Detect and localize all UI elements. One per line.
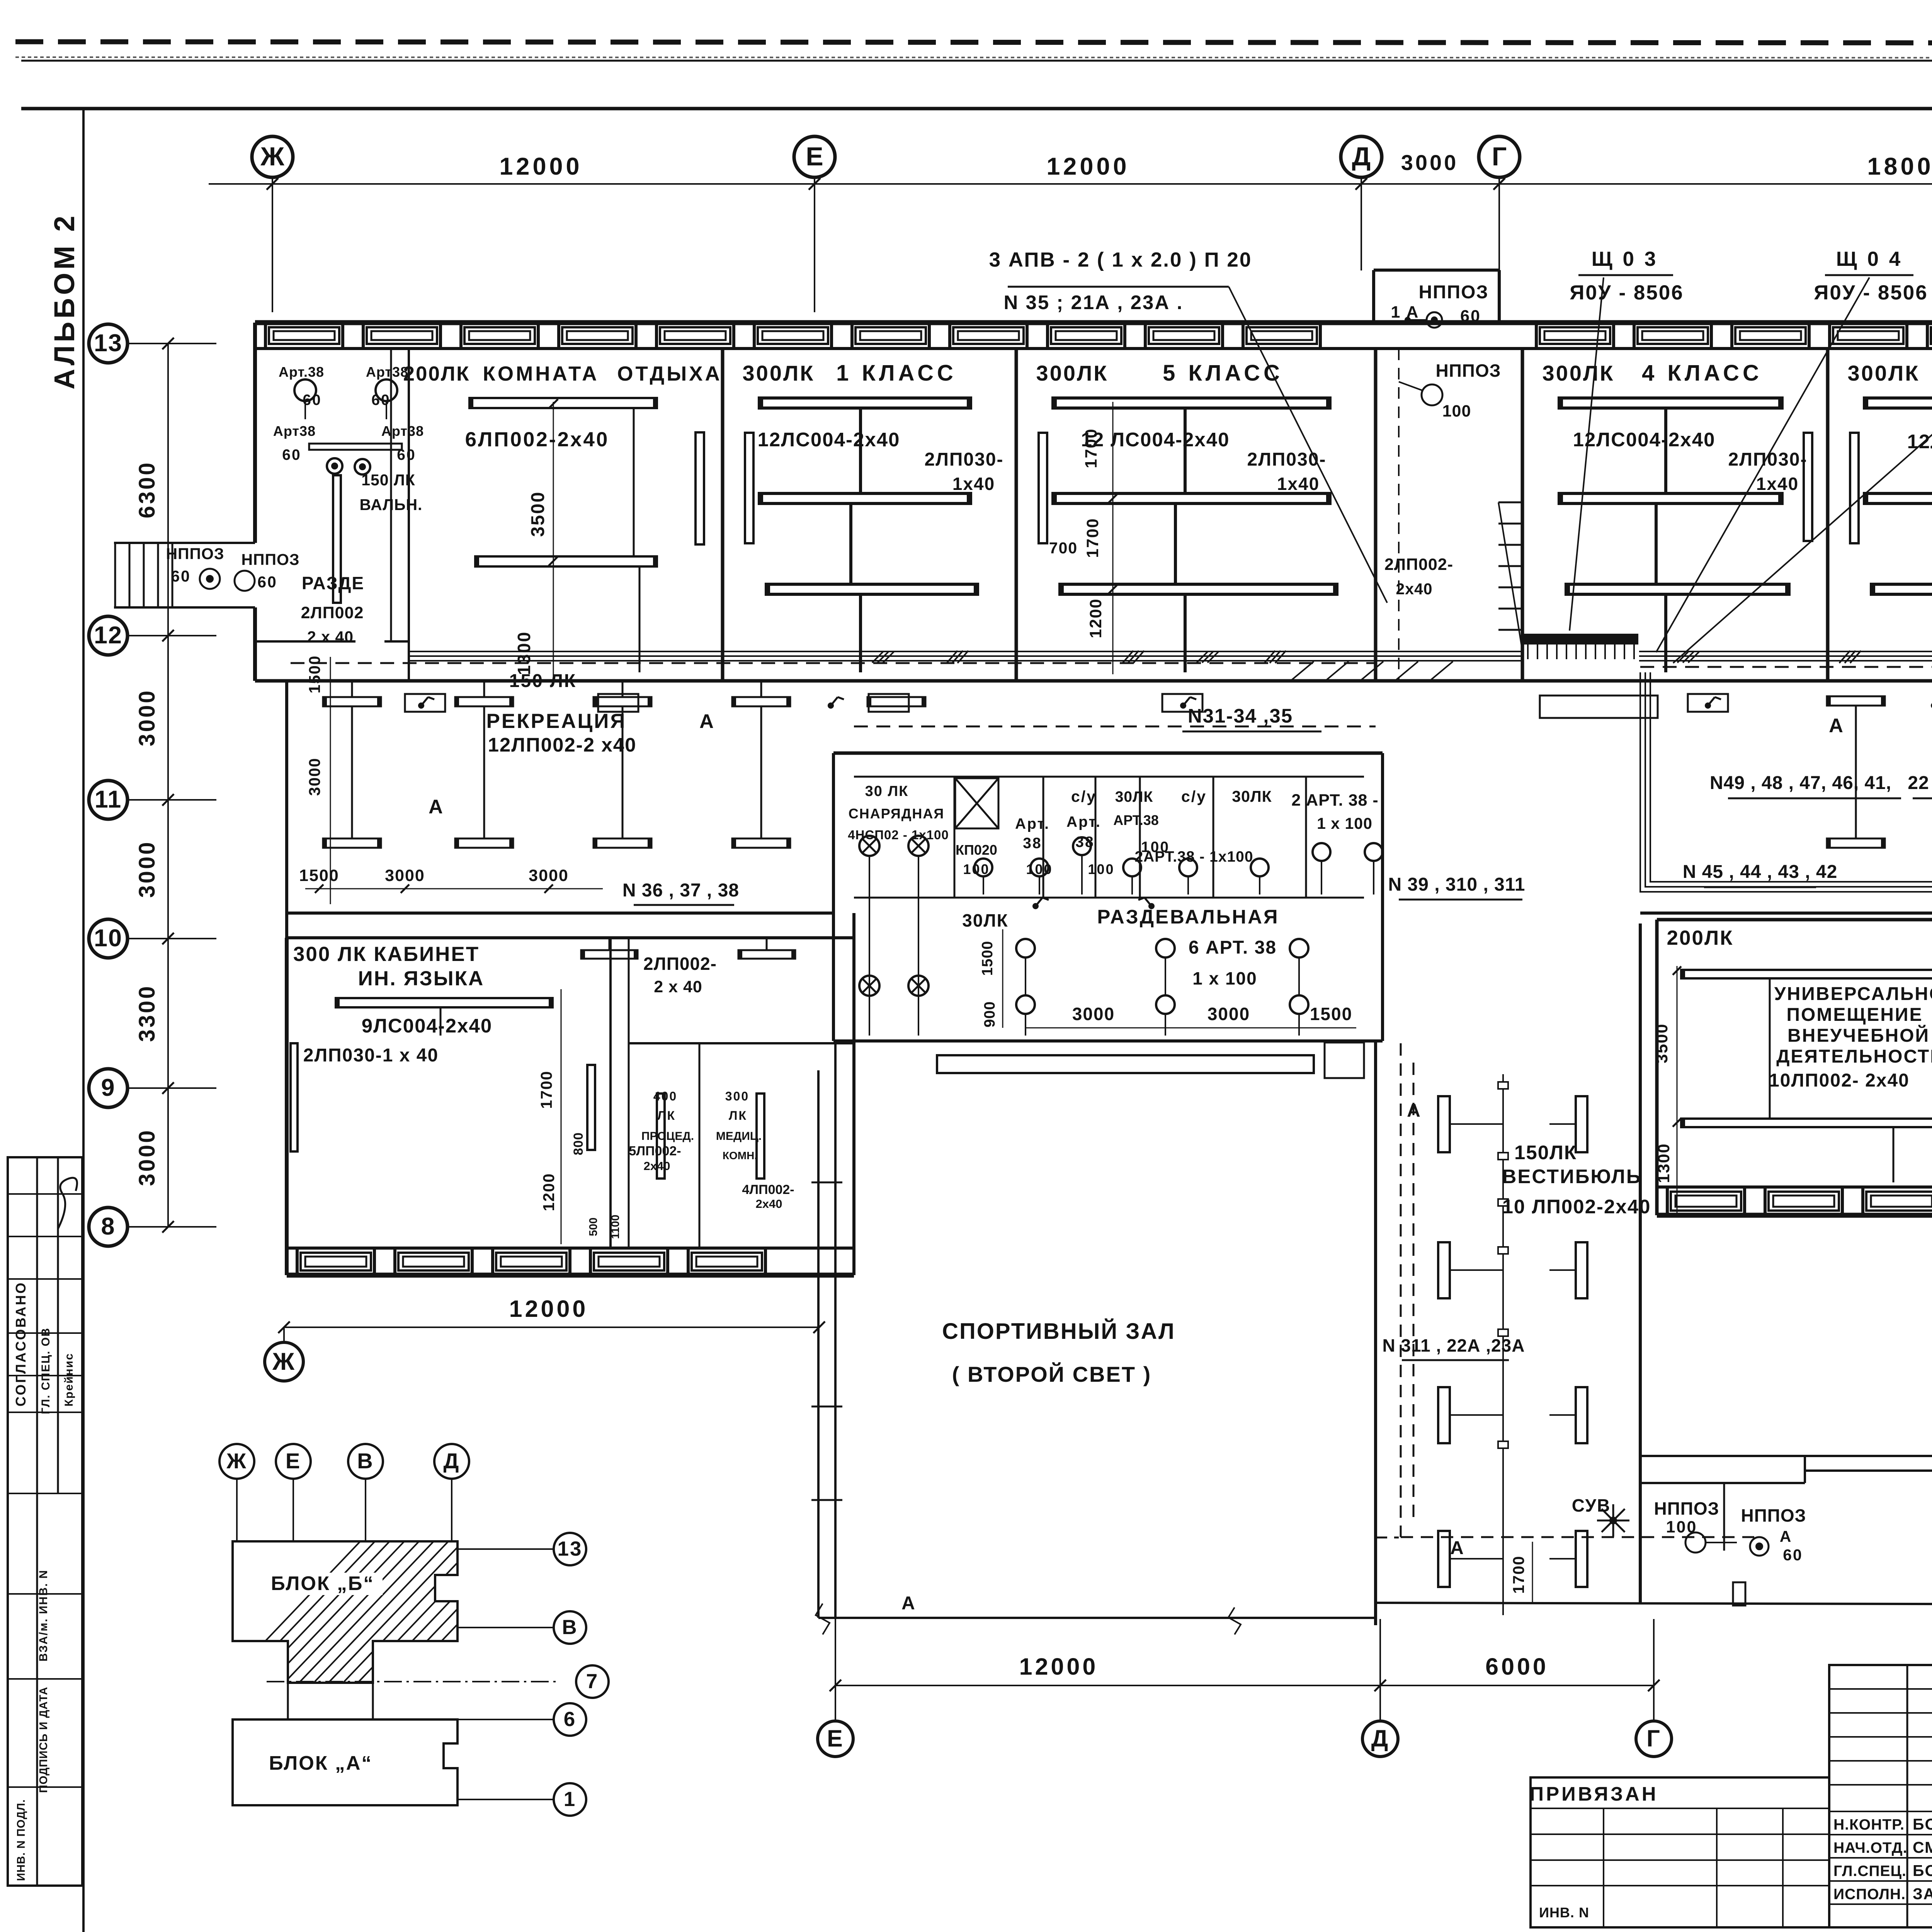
svg-text:В: В <box>562 1616 578 1639</box>
svg-text:А: А <box>1780 1527 1793 1545</box>
svg-text:КОМНАТА: КОМНАТА <box>483 362 599 385</box>
svg-text:12000: 12000 <box>509 1296 588 1322</box>
cabinet blackboard bar <box>291 1043 298 1151</box>
lower-left south wall with windows <box>287 1273 854 1278</box>
svg-text:10ЛП002- 2х40: 10ЛП002- 2х40 <box>1769 1070 1910 1091</box>
key plan leaders <box>457 1548 554 1550</box>
svg-text:2 х 40: 2 х 40 <box>307 628 354 646</box>
title block: signature table <box>1829 1665 1932 1927</box>
sports hall west wall window ticks <box>811 1182 842 1184</box>
svg-text:1300: 1300 <box>1655 1143 1673 1183</box>
svg-text:РАЗДЕВАЛЬНАЯ: РАЗДЕВАЛЬНАЯ <box>1097 906 1279 928</box>
switch symbols at classroom doors <box>418 702 424 709</box>
svg-text:Н.КОНТР.: Н.КОНТР. <box>1833 1816 1905 1833</box>
svg-text:1х40: 1х40 <box>952 474 995 494</box>
svg-text:300 ЛК КАБИНЕТ: 300 ЛК КАБИНЕТ <box>293 943 480 966</box>
svg-text:Арт.: Арт. <box>1066 814 1101 830</box>
top column grid dimension line <box>209 183 1932 185</box>
svg-text:1х40: 1х40 <box>1277 474 1320 494</box>
svg-text:700: 700 <box>1049 539 1078 557</box>
changing block partition (upper strip) <box>854 897 1364 899</box>
room 5 КЛАСС: luminaire bars <box>1053 398 1330 408</box>
sports hall west wall (double) <box>817 1070 820 1618</box>
room СНАРЯДНАЯ lamps <box>859 836 879 856</box>
closet with cross (changing strip) <box>955 778 998 828</box>
svg-text:10 ЛП002-2х40: 10 ЛП002-2х40 <box>1502 1196 1651 1218</box>
svg-text:400: 400 <box>653 1089 677 1103</box>
partition РАЗДЕ/ВАЛЬН <box>390 349 392 641</box>
svg-text:300ЛК: 300ЛК <box>1036 361 1109 385</box>
torn top edge of scanned sheet <box>15 42 1932 43</box>
svg-text:1700: 1700 <box>1083 518 1102 558</box>
recreation (right) T-luminaires row 1 <box>1827 696 1885 706</box>
changing room dim chain <box>1002 929 1003 1028</box>
bench below changing block <box>937 1055 1314 1073</box>
svg-text:30ЛК: 30ЛК <box>962 910 1009 930</box>
svg-text:12000: 12000 <box>499 153 582 180</box>
stairwell between 5 КЛАСС and 4 КЛАСС <box>1398 349 1400 681</box>
corridor south wall (right part) <box>1640 912 1932 915</box>
svg-text:1500: 1500 <box>979 941 996 976</box>
svg-text:ИНВ. N ПОДЛ.: ИНВ. N ПОДЛ. <box>15 1799 27 1881</box>
svg-text:200ЛК: 200ЛК <box>403 362 470 385</box>
grid bubble Ж (bottom of hall) <box>265 1342 303 1381</box>
svg-text:3000: 3000 <box>385 866 425 885</box>
vestibule luminaires (vertical bars) <box>1438 1096 1450 1152</box>
svg-text:3000: 3000 <box>529 866 569 885</box>
svg-text:8: 8 <box>101 1213 115 1240</box>
svg-text:2 АРТ. 38 -: 2 АРТ. 38 - <box>1291 791 1378 810</box>
svg-text:6 АРТ. 38: 6 АРТ. 38 <box>1189 937 1277 958</box>
grid bubble 11 (left) <box>89 781 128 819</box>
grid bubble 12 (left) <box>89 616 128 655</box>
grid bubble Е (top) <box>794 136 835 177</box>
grid bubble Е (bottom) <box>818 1721 853 1757</box>
svg-text:3000: 3000 <box>134 1128 160 1186</box>
svg-text:1500: 1500 <box>299 866 339 885</box>
svg-text:УНИВЕРСАЛЬНОЕ: УНИВЕРСАЛЬНОЕ <box>1774 984 1932 1004</box>
svg-text:100: 100 <box>1442 402 1471 420</box>
svg-text:с/у: с/у <box>1181 787 1207 805</box>
grid bubble Д (bottom) <box>1362 1721 1398 1757</box>
svg-text:1200: 1200 <box>1087 598 1105 638</box>
svg-text:150 ЛК: 150 ЛК <box>509 671 577 691</box>
svg-text:Ж: Ж <box>260 142 284 171</box>
svg-text:Д: Д <box>1352 142 1371 171</box>
room 1 КЛАСС: luminaire bars <box>759 398 971 408</box>
svg-text:ВЕСТИБЮЛЬ: ВЕСТИБЮЛЬ <box>1502 1165 1642 1187</box>
title block: ПРИВЯЗАН table <box>1531 1777 1829 1927</box>
panel drop wires <box>1527 645 1529 659</box>
classroom band south corridor wall <box>255 679 1932 683</box>
svg-text:1 х 100: 1 х 100 <box>1317 815 1372 832</box>
sports hall south wall break marks <box>816 1604 830 1634</box>
svg-text:3000: 3000 <box>1207 1004 1250 1024</box>
svg-text:4НСП02 - 1х100: 4НСП02 - 1х100 <box>848 828 949 842</box>
svg-text:1 х 100: 1 х 100 <box>1192 968 1257 988</box>
svg-text:НППОЗ: НППОЗ <box>1436 361 1501 381</box>
svg-text:КОМН.: КОМН. <box>723 1150 757 1162</box>
grid bubble 9 (left) <box>89 1069 128 1107</box>
svg-text:12ЛС004-2х40: 12ЛС004-2х40 <box>1573 429 1716 451</box>
svg-text:5ЛП002-: 5ЛП002- <box>629 1144 681 1158</box>
svg-text:1200: 1200 <box>540 1173 558 1211</box>
svg-text:1х40: 1х40 <box>1756 474 1799 494</box>
svg-text:2х40: 2х40 <box>644 1159 670 1173</box>
svg-text:12ЛП002-2 х40: 12ЛП002-2 х40 <box>488 734 637 756</box>
corridor door jambs <box>405 694 445 712</box>
svg-text:ЗАЙЦЕВА: ЗАЙЦЕВА <box>1913 1885 1932 1903</box>
svg-text:Ж: Ж <box>226 1449 247 1473</box>
svg-text:1700: 1700 <box>1082 428 1100 468</box>
svg-text:12ЛС004-2х40: 12ЛС004-2х40 <box>1907 430 1932 452</box>
svg-text:3500: 3500 <box>1653 1023 1671 1063</box>
classroom interior dims 1700/1700/1200/700 <box>1112 402 1114 674</box>
svg-text:ПОДПИСЬ И ДАТА: ПОДПИСЬ И ДАТА <box>37 1687 50 1793</box>
svg-text:НППОЗ: НППОЗ <box>1654 1498 1719 1519</box>
grid bubble Ж (top) <box>252 136 293 177</box>
svg-text:200ЛК: 200ЛК <box>1667 927 1734 949</box>
svg-text:ИСПОЛН.: ИСПОЛН. <box>1833 1886 1906 1903</box>
grid bubble 13 (left) <box>89 324 128 363</box>
svg-text:БЛОК „А“: БЛОК „А“ <box>269 1752 372 1774</box>
svg-text:ВЗА/м. ИНВ. N: ВЗА/м. ИНВ. N <box>37 1570 50 1662</box>
svg-text:БЛОК „Б“: БЛОК „Б“ <box>271 1572 374 1594</box>
ПРОЦЕД / МЕДИЦ rooms <box>587 1065 595 1150</box>
svg-text:N31-34 ,35: N31-34 ,35 <box>1188 705 1293 727</box>
svg-text:А: А <box>901 1593 916 1614</box>
svg-text:А: А <box>429 796 444 818</box>
recreation (right) T-luminaires row 2 <box>1827 838 1885 848</box>
cabinet luminaire bar <box>336 998 553 1007</box>
2ЛП002 T-luminaires in small rooms <box>581 950 638 959</box>
svg-text:150 ЛК: 150 ЛК <box>361 471 415 489</box>
corridor feeder bundle (3 wires) <box>410 651 1522 652</box>
lower-left block walls <box>287 936 854 939</box>
west entrance porch walls <box>114 542 255 544</box>
svg-text:2АРТ.38 - 1х100: 2АРТ.38 - 1х100 <box>1134 849 1253 865</box>
vestibule east wall <box>1639 923 1642 1603</box>
svg-text:2х40: 2х40 <box>756 1197 782 1211</box>
svg-text:Д: Д <box>1371 1725 1389 1752</box>
svg-text:150ЛК: 150ЛК <box>1514 1141 1577 1163</box>
svg-text:60: 60 <box>303 392 321 408</box>
svg-text:2ЛП030-: 2ЛП030- <box>1728 449 1808 470</box>
svg-text:Арт38: Арт38 <box>381 423 424 439</box>
svg-text:60: 60 <box>1460 307 1481 325</box>
svg-text:СМИРНОВ: СМИРНОВ <box>1913 1838 1932 1856</box>
svg-text:( ВТОРОЙ СВЕТ ): ( ВТОРОЙ СВЕТ ) <box>952 1362 1152 1386</box>
svg-text:300: 300 <box>725 1089 749 1103</box>
svg-text:СНАРЯДНАЯ: СНАРЯДНАЯ <box>849 806 945 821</box>
svg-text:ЛК: ЛК <box>657 1109 676 1122</box>
svg-text:1: 1 <box>564 1788 576 1811</box>
grid bubble Г (bottom) <box>1636 1721 1672 1757</box>
svg-text:А: А <box>1829 714 1844 736</box>
bottom grid dimension line <box>835 1685 1654 1686</box>
svg-text:2ЛП030-: 2ЛП030- <box>1247 449 1327 470</box>
svg-text:5 КЛАСС: 5 КЛАСС <box>1163 361 1283 386</box>
svg-text:НАЧ.ОТД.: НАЧ.ОТД. <box>1833 1840 1907 1856</box>
svg-text:Е: Е <box>806 142 823 171</box>
svg-text:500: 500 <box>587 1218 600 1236</box>
svg-text:НППОЗ: НППОЗ <box>1418 282 1488 303</box>
svg-text:3000: 3000 <box>1072 1004 1115 1024</box>
building west outer wall <box>253 323 257 543</box>
svg-text:ВНЕУЧЕБНОЙ: ВНЕУЧЕБНОЙ <box>1787 1025 1930 1046</box>
feeder bundle to south-east block <box>1640 672 1932 920</box>
svg-text:22 А: 22 А <box>1908 773 1932 793</box>
svg-text:N 45 , 44 , 43 , 42: N 45 , 44 , 43 , 42 <box>1683 862 1838 882</box>
svg-text:60: 60 <box>282 447 301 463</box>
svg-text:12000: 12000 <box>1019 1653 1099 1680</box>
svg-text:Крейнис: Крейнис <box>63 1353 75 1406</box>
bottom grid dimension line (sports hall 12000) <box>284 1327 819 1328</box>
svg-text:Ж: Ж <box>272 1348 296 1375</box>
svg-text:60: 60 <box>1783 1546 1803 1564</box>
svg-text:12ЛС004-2х40: 12ЛС004-2х40 <box>758 429 900 451</box>
svg-text:СПОРТИВНЫЙ ЗАЛ: СПОРТИВНЫЙ ЗАЛ <box>942 1319 1175 1344</box>
svg-text:N49 , 48 , 47, 46, 41,: N49 , 48 , 47, 46, 41, <box>1710 773 1891 793</box>
top margin band line <box>21 60 1932 62</box>
key plan grid bubbles Ж Е В Д <box>219 1444 254 1479</box>
recreation (left) T-luminaires row 2 <box>323 838 381 848</box>
svg-text:38: 38 <box>1023 835 1042 852</box>
svg-text:60: 60 <box>171 567 191 585</box>
svg-text:1700: 1700 <box>537 1070 555 1109</box>
svg-text:БОРОДКИН: БОРОДКИН <box>1913 1815 1932 1833</box>
svg-text:6ЛП002-2х40: 6ЛП002-2х40 <box>465 428 609 451</box>
svg-text:4 КЛАСС: 4 КЛАСС <box>1642 361 1762 386</box>
svg-text:А: А <box>1407 1100 1422 1121</box>
key plan axis 7 dash-dot line <box>267 1681 560 1682</box>
РАЗДЕ room south wall <box>255 640 355 643</box>
svg-text:N 35 ; 21А , 23А .: N 35 ; 21А , 23А . <box>1003 291 1183 313</box>
svg-text:300ЛК: 300ЛК <box>743 361 815 385</box>
svg-text:11: 11 <box>95 786 122 813</box>
vestibule south ground line <box>1376 1603 1932 1604</box>
svg-text:10: 10 <box>94 925 122 952</box>
svg-text:НППОЗ: НППОЗ <box>1741 1505 1806 1526</box>
svg-text:ВАЛЬН.: ВАЛЬН. <box>360 496 423 514</box>
svg-text:1100: 1100 <box>609 1215 622 1239</box>
stair treads <box>1498 502 1522 503</box>
svg-text:13: 13 <box>94 330 122 357</box>
hatch slashes on corridor bundle <box>947 651 957 663</box>
corridor dashed wiring line <box>291 662 1376 664</box>
svg-text:60: 60 <box>257 573 277 591</box>
grid bubble Г (top) <box>1479 136 1520 177</box>
svg-text:ПРИВЯЗАН: ПРИВЯЗАН <box>1529 1783 1658 1805</box>
svg-text:ИН. ЯЗЫКА: ИН. ЯЗЫКА <box>358 967 485 990</box>
top band lower rule <box>21 107 1932 111</box>
vestibule door opening <box>1540 696 1658 718</box>
svg-text:60: 60 <box>371 392 390 408</box>
svg-text:Арт38: Арт38 <box>366 364 408 380</box>
svg-text:12000: 12000 <box>1046 153 1129 180</box>
svg-text:Я0У - 8506: Я0У - 8506 <box>1814 281 1928 304</box>
svg-text:100: 100 <box>1026 861 1053 877</box>
dims 3500/1300 (universal room) <box>1677 966 1678 1213</box>
svg-text:РЕКРЕАЦИЯ: РЕКРЕАЦИЯ <box>486 710 627 733</box>
left frame border <box>82 109 85 1932</box>
vestibule dashed feeder loop <box>1400 1043 1402 1537</box>
upper strip lamps <box>975 859 992 876</box>
dim 1700 (vestibule exit) <box>1532 1542 1533 1604</box>
svg-text:ПОМЕЩЕНИЕ: ПОМЕЩЕНИЕ <box>1787 1005 1923 1025</box>
svg-text:12: 12 <box>94 622 122 649</box>
svg-text:38: 38 <box>1075 834 1094 850</box>
svg-text:Г: Г <box>1492 142 1507 171</box>
svg-text:2ЛП002: 2ЛП002 <box>301 604 364 622</box>
svg-text:АЛЬБОМ 2: АЛЬБОМ 2 <box>48 213 80 389</box>
svg-text:Я0У - 8506: Я0У - 8506 <box>1570 281 1684 304</box>
svg-text:60: 60 <box>397 447 416 463</box>
svg-text:ИНВ. N: ИНВ. N <box>1539 1905 1589 1920</box>
classroom partition walls <box>721 349 724 681</box>
svg-text:2 х 40: 2 х 40 <box>654 978 702 996</box>
svg-text:300ЛК: 300ЛК <box>1848 361 1920 385</box>
room 3 КЛАСС: luminaire bars <box>1864 398 1932 408</box>
svg-text:АРТ.38: АРТ.38 <box>1113 812 1159 828</box>
svg-text:ОТДЫХА: ОТДЫХА <box>617 362 722 385</box>
svg-text:А: А <box>1450 1538 1465 1558</box>
svg-text:900: 900 <box>981 1001 998 1027</box>
svg-text:Арт38: Арт38 <box>273 423 316 439</box>
svg-text:Е: Е <box>286 1449 301 1473</box>
south-east canopy slab <box>1640 1455 1932 1457</box>
svg-text:6000: 6000 <box>1485 1653 1549 1680</box>
vestibule south dashed line <box>1376 1537 1399 1539</box>
svg-text:30ЛК: 30ЛК <box>1115 789 1153 805</box>
svg-text:Г: Г <box>1646 1725 1661 1752</box>
svg-text:N 39 , 310 , 311: N 39 , 310 , 311 <box>1388 874 1526 895</box>
svg-text:100: 100 <box>1088 861 1114 877</box>
main panel ЩО3 (black bar) <box>1522 634 1638 645</box>
lower-right south wall with windows <box>1657 1213 1932 1218</box>
svg-text:30 ЛК: 30 ЛК <box>865 783 909 799</box>
svg-text:6: 6 <box>564 1708 576 1731</box>
svg-text:2х40: 2х40 <box>1396 580 1432 598</box>
svg-text:N 311 , 22А ,23А: N 311 , 22А ,23А <box>1383 1335 1525 1355</box>
grid bubble 10 (left) <box>89 919 128 958</box>
lower-right block walls <box>1657 918 1932 922</box>
dim 1700 (cabinet) <box>561 989 562 1244</box>
exit door jamb <box>1733 1582 1745 1605</box>
svg-text:1700: 1700 <box>1510 1555 1527 1594</box>
recreation interior dim chain <box>330 657 331 904</box>
svg-text:3000: 3000 <box>306 757 323 796</box>
svg-text:ПРОЦЕД.: ПРОЦЕД. <box>641 1130 694 1143</box>
corridor south wall (left part) <box>287 912 833 915</box>
svg-text:КП020: КП020 <box>956 842 997 858</box>
svg-text:3000: 3000 <box>134 840 160 898</box>
room РАЗДЕ / ВАЛЬН lamps Арт.38 <box>294 379 316 401</box>
svg-text:2ЛП030-: 2ЛП030- <box>925 449 1004 470</box>
svg-text:ДЕЯТЕЛЬНОСТИ: ДЕЯТЕЛЬНОСТИ <box>1776 1046 1932 1067</box>
svg-text:3300: 3300 <box>134 984 160 1042</box>
key plan БЛОК А <box>287 1683 289 1719</box>
west entrance steps <box>114 543 116 607</box>
svg-text:Арт.38: Арт.38 <box>279 364 324 380</box>
lower-left partitions <box>609 938 612 1248</box>
svg-text:БОРОДКИН: БОРОДКИН <box>1913 1862 1932 1879</box>
svg-text:N 36 , 37 , 38: N 36 , 37 , 38 <box>622 880 739 901</box>
vestibule west wall <box>1374 1041 1377 1625</box>
dim 3500 (комната отдыха) <box>553 402 554 680</box>
svg-text:Щ 0 4: Щ 0 4 <box>1836 248 1903 270</box>
svg-text:100: 100 <box>963 861 990 877</box>
svg-text:12 ЛС004-2х40: 12 ЛС004-2х40 <box>1081 429 1230 451</box>
svg-text:3000: 3000 <box>134 689 160 746</box>
svg-text:9: 9 <box>101 1074 115 1101</box>
svg-text:ЛК: ЛК <box>729 1109 747 1122</box>
svg-text:1300: 1300 <box>514 631 534 675</box>
room 4 КЛАСС: luminaire bars <box>1559 398 1782 408</box>
svg-text:А: А <box>699 710 715 732</box>
svg-text:30ЛК: 30ЛК <box>1232 787 1272 805</box>
svg-text:13: 13 <box>558 1537 583 1560</box>
svg-text:18000: 18000 <box>1867 153 1932 180</box>
svg-text:2ЛП002-: 2ЛП002- <box>1384 555 1453 574</box>
svg-text:3500: 3500 <box>528 491 548 537</box>
svg-text:ГЛ. СПЕЦ. ОВ: ГЛ. СПЕЦ. ОВ <box>39 1327 52 1414</box>
left margin stamp table <box>8 1157 82 1886</box>
svg-text:1500: 1500 <box>1310 1004 1352 1024</box>
svg-text:с/у: с/у <box>1071 787 1097 805</box>
svg-text:1 КЛАСС: 1 КЛАСС <box>836 361 957 386</box>
stamp signature squiggle <box>58 1178 77 1229</box>
svg-text:9ЛС004-2х40: 9ЛС004-2х40 <box>362 1015 493 1037</box>
svg-text:ГЛ.СПЕЦ.: ГЛ.СПЕЦ. <box>1833 1863 1906 1879</box>
svg-text:6300: 6300 <box>134 461 160 518</box>
svg-text:НППОЗ: НППОЗ <box>241 551 299 568</box>
svg-text:2ЛП030-1 х 40: 2ЛП030-1 х 40 <box>303 1045 439 1066</box>
svg-text:Д: Д <box>444 1449 460 1473</box>
svg-text:НППОЗ: НППОЗ <box>166 545 224 563</box>
key plan row bubbles <box>554 1533 586 1565</box>
grid bubble 8 (left) <box>89 1207 128 1246</box>
changing block outer walls <box>833 752 1383 755</box>
РАЗДЕВАЛЬНАЯ lamps <box>1016 939 1035 957</box>
recreation (left) T-luminaires row 1 <box>323 697 381 706</box>
vestibule riser wire with boxes <box>1502 1074 1504 1615</box>
sports hall south wall <box>818 1617 1376 1619</box>
svg-text:300ЛК: 300ЛК <box>1543 361 1615 385</box>
left row grid dimension line <box>167 344 169 1227</box>
svg-text:СОГЛАСОВАНО: СОГЛАСОВАНО <box>13 1281 29 1406</box>
svg-text:Арт.: Арт. <box>1015 816 1050 832</box>
svg-text:4ЛП002-: 4ЛП002- <box>742 1182 794 1197</box>
svg-text:РАЗДЕ: РАЗДЕ <box>302 573 364 593</box>
svg-text:2ЛП002-: 2ЛП002- <box>643 954 717 974</box>
classroom block north wall with windows <box>255 320 1932 325</box>
svg-text:7: 7 <box>586 1670 599 1693</box>
svg-text:В: В <box>357 1449 374 1473</box>
svg-text:3000: 3000 <box>1401 150 1459 175</box>
svg-text:Щ 0 3: Щ 0 3 <box>1592 248 1658 270</box>
svg-text:Е: Е <box>827 1725 844 1752</box>
svg-text:1500: 1500 <box>306 655 323 693</box>
grid bubble Д (top) <box>1341 136 1382 177</box>
svg-text:МЕДИЦ.: МЕДИЦ. <box>716 1130 762 1143</box>
entrance porch at grid Д-Г <box>1372 270 1375 323</box>
corridor west wall <box>285 681 288 938</box>
svg-text:3 АПВ - 2 ( 1 х 2.0 ) П 20: 3 АПВ - 2 ( 1 х 2.0 ) П 20 <box>989 248 1252 271</box>
svg-text:800: 800 <box>571 1132 586 1155</box>
